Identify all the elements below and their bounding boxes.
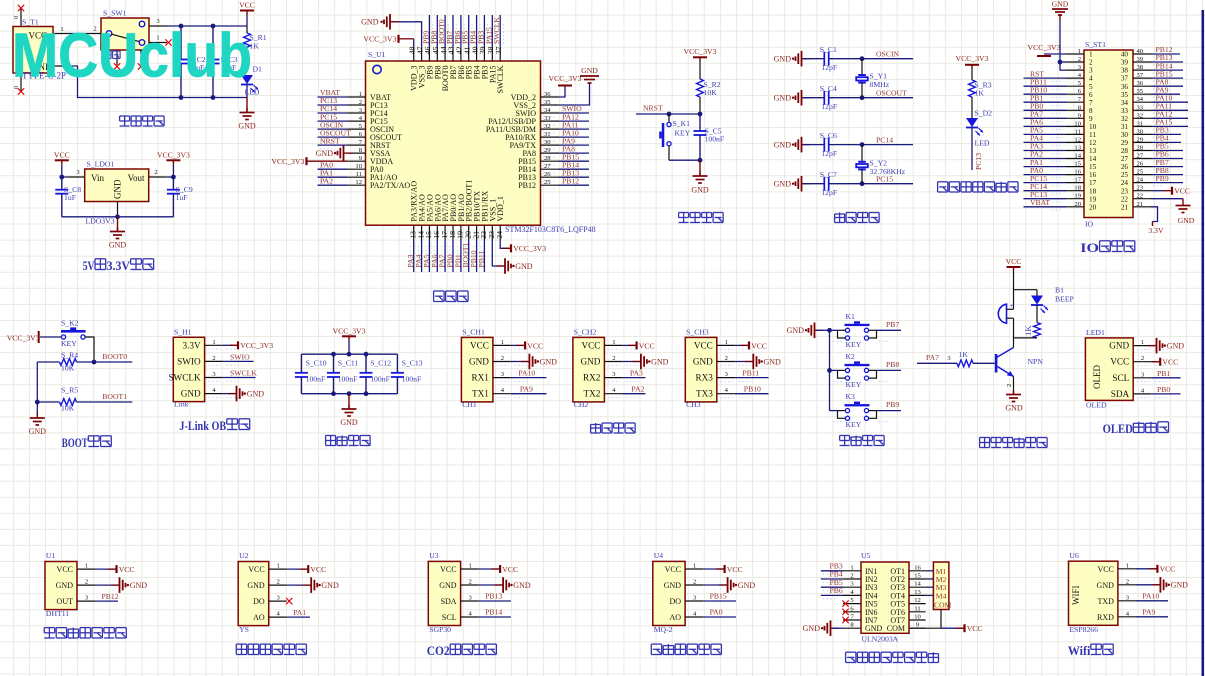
svg-text:VCC_3V3: VCC_3V3: [7, 334, 40, 343]
svg-text:1K: 1K: [1023, 325, 1033, 336]
svg-text:PB7: PB7: [886, 320, 899, 329]
svg-text:TX2: TX2: [584, 389, 601, 399]
svg-text:NPN: NPN: [1028, 357, 1044, 366]
svg-text:PB1: PB1: [1157, 369, 1170, 378]
svg-text:VCC_3V3: VCC_3V3: [240, 341, 273, 350]
svg-text:32.768KHz: 32.768KHz: [870, 167, 906, 176]
svg-text:SDA: SDA: [1111, 389, 1130, 399]
svg-text:SWCLK: SWCLK: [492, 17, 501, 44]
svg-text:3.3V: 3.3V: [1148, 226, 1164, 235]
svg-text:8MHz: 8MHz: [870, 80, 890, 89]
svg-text:U6: U6: [1069, 551, 1079, 560]
svg-text:KEY: KEY: [846, 340, 862, 349]
svg-text:GND: GND: [321, 581, 339, 590]
svg-text:27: 27: [1121, 155, 1129, 163]
svg-text:37: 37: [494, 46, 503, 54]
svg-text:40: 40: [1121, 51, 1129, 59]
svg-text:GND: GND: [1097, 581, 1115, 590]
svg-text:PB10: PB10: [744, 385, 761, 394]
svg-text:GND: GND: [1167, 342, 1185, 351]
svg-text:2: 2: [359, 99, 362, 106]
svg-text:12pF: 12pF: [821, 102, 837, 111]
svg-text:32: 32: [1121, 115, 1129, 123]
svg-text:13: 13: [1089, 147, 1097, 155]
svg-text:GND: GND: [439, 581, 457, 590]
svg-text:PB12: PB12: [518, 181, 536, 190]
svg-text:SCL: SCL: [1112, 373, 1129, 383]
svg-text:MCUclub: MCUclub: [12, 22, 252, 91]
svg-text:38: 38: [1121, 67, 1129, 75]
svg-text:33: 33: [1137, 104, 1144, 111]
svg-text:S_D2: S_D2: [975, 109, 993, 118]
svg-text:VCC: VCC: [639, 341, 655, 350]
svg-text:8: 8: [1089, 107, 1093, 115]
svg-text:VBAT: VBAT: [1030, 198, 1050, 207]
svg-text:11: 11: [914, 605, 920, 612]
svg-text:12pF: 12pF: [821, 149, 837, 158]
svg-text:PB13: PB13: [485, 592, 502, 601]
svg-text:35: 35: [544, 99, 551, 106]
svg-text:VCC_3V3: VCC_3V3: [1028, 43, 1061, 52]
svg-text:30: 30: [1137, 128, 1144, 135]
svg-text:SGP30: SGP30: [429, 625, 451, 634]
svg-text:3.3V: 3.3V: [107, 258, 131, 273]
svg-text:PA7: PA7: [926, 353, 939, 362]
svg-text:LED1: LED1: [1086, 328, 1105, 337]
svg-text:RXD: RXD: [1097, 613, 1114, 622]
svg-text:VCC: VCC: [310, 565, 326, 574]
svg-text:31: 31: [1137, 120, 1144, 127]
svg-text:26: 26: [1137, 161, 1144, 168]
svg-text:PB12: PB12: [562, 176, 579, 185]
svg-text:S_R5: S_R5: [61, 386, 78, 395]
svg-text:10: 10: [914, 614, 921, 621]
svg-text:U5: U5: [861, 551, 871, 560]
svg-text:S_CH1: S_CH1: [462, 328, 485, 337]
svg-text:12: 12: [355, 179, 362, 186]
svg-text:GND: GND: [56, 581, 74, 590]
svg-text:VCC_3V3: VCC_3V3: [333, 327, 366, 336]
svg-text:100nF: 100nF: [370, 375, 390, 384]
svg-text:S_C7: S_C7: [820, 170, 837, 179]
svg-text:AO: AO: [670, 613, 682, 622]
svg-text:GND: GND: [109, 241, 127, 250]
svg-text:PB9: PB9: [886, 400, 899, 409]
svg-text:34: 34: [544, 107, 551, 114]
svg-text:Wifi: Wifi: [1068, 644, 1091, 658]
svg-text:100nF: 100nF: [402, 375, 422, 384]
svg-text:KEY: KEY: [846, 420, 862, 429]
svg-text:U4: U4: [654, 551, 664, 560]
svg-text:NRST: NRST: [643, 104, 663, 113]
svg-text:16: 16: [914, 564, 921, 571]
svg-text:2: 2: [693, 579, 696, 586]
svg-text:3.3V: 3.3V: [182, 340, 200, 350]
svg-text:28: 28: [1121, 147, 1129, 155]
svg-text:VCC: VCC: [751, 341, 767, 350]
svg-text:VCC: VCC: [54, 150, 70, 159]
svg-text:PB9: PB9: [1156, 174, 1169, 183]
svg-text:35: 35: [1121, 91, 1129, 99]
svg-text:Vin: Vin: [91, 173, 104, 183]
svg-text:30: 30: [1121, 131, 1129, 139]
svg-text:PB15: PB15: [710, 592, 727, 601]
svg-text:4: 4: [1089, 75, 1093, 83]
svg-text:PA2: PA2: [320, 176, 333, 185]
svg-text:GND: GND: [1171, 581, 1189, 590]
svg-text:14: 14: [914, 581, 921, 588]
svg-text:PA0: PA0: [710, 608, 723, 617]
svg-text:GND: GND: [865, 624, 883, 633]
svg-text:SCL: SCL: [442, 613, 457, 622]
svg-text:2: 2: [725, 355, 728, 362]
svg-text:SWCLK: SWCLK: [168, 373, 201, 383]
svg-text:GND: GND: [238, 122, 256, 131]
svg-text:SWCLK: SWCLK: [496, 65, 505, 93]
svg-text:GND: GND: [774, 94, 792, 103]
svg-text:VCC: VCC: [57, 565, 73, 574]
svg-text:TX1: TX1: [472, 389, 489, 399]
svg-text:S_CH3: S_CH3: [686, 328, 709, 337]
svg-text:CO2: CO2: [427, 644, 450, 658]
svg-text:AO: AO: [253, 613, 265, 622]
svg-text:1: 1: [212, 339, 215, 346]
svg-text:1: 1: [1078, 48, 1081, 55]
svg-text:24: 24: [1121, 179, 1129, 187]
svg-text:CH3: CH3: [686, 400, 701, 409]
svg-text:GND: GND: [738, 581, 756, 590]
svg-text:VDD_1: VDD_1: [496, 196, 505, 221]
svg-text:K3: K3: [846, 392, 856, 401]
svg-text:100nF: 100nF: [705, 135, 725, 144]
svg-text:DO: DO: [253, 597, 265, 606]
svg-text:23: 23: [1121, 187, 1129, 195]
svg-text:CH2: CH2: [574, 400, 589, 409]
svg-text:S_K2: S_K2: [61, 319, 79, 328]
svg-text:VCC: VCC: [1006, 257, 1022, 266]
svg-text:25: 25: [1121, 171, 1129, 179]
svg-text:GND: GND: [181, 389, 201, 399]
svg-text:12pF: 12pF: [821, 188, 837, 197]
svg-text:29: 29: [1137, 136, 1144, 143]
svg-text:VCC: VCC: [119, 565, 135, 574]
svg-text:1: 1: [693, 563, 696, 570]
svg-text:VCC: VCC: [1110, 357, 1129, 367]
svg-text:KEY: KEY: [61, 339, 77, 348]
svg-text:S_C11: S_C11: [338, 359, 359, 368]
svg-text:S_C12: S_C12: [370, 359, 391, 368]
svg-text:VCC_3V3: VCC_3V3: [157, 150, 190, 159]
svg-text:Link: Link: [174, 400, 189, 409]
svg-text:SWIO: SWIO: [230, 353, 250, 362]
svg-text:PB12: PB12: [102, 592, 119, 601]
svg-text:2: 2: [1126, 578, 1129, 585]
svg-text:GND: GND: [361, 18, 379, 27]
svg-text:D1: D1: [253, 65, 263, 74]
svg-text:GND: GND: [130, 581, 148, 590]
svg-text:M4: M4: [936, 591, 947, 600]
svg-text:U1: U1: [46, 551, 56, 560]
svg-text:2: 2: [1078, 56, 1081, 63]
svg-text:19: 19: [1074, 193, 1081, 200]
svg-text:GND: GND: [340, 418, 358, 427]
svg-text:34: 34: [1137, 96, 1144, 103]
svg-text:29: 29: [1121, 139, 1129, 147]
svg-text:WIFI: WIFI: [1071, 586, 1081, 606]
svg-text:STM32F103C8T6_LQFP48: STM32F103C8T6_LQFP48: [505, 225, 596, 234]
svg-text:36: 36: [1121, 83, 1129, 91]
svg-text:GND: GND: [787, 326, 805, 335]
svg-text:S_C4: S_C4: [820, 84, 837, 93]
svg-text:SWCLK: SWCLK: [230, 369, 257, 378]
svg-text:PC13: PC13: [974, 153, 983, 170]
svg-text:2: 2: [154, 169, 157, 176]
svg-text:12: 12: [1089, 139, 1097, 147]
svg-text:VCC: VCC: [727, 565, 743, 574]
svg-text:PA10: PA10: [1142, 592, 1159, 601]
svg-text:23: 23: [1137, 185, 1144, 192]
svg-text:10K: 10K: [704, 88, 718, 97]
svg-text:27: 27: [544, 163, 551, 170]
svg-text:S_H1: S_H1: [174, 328, 192, 337]
svg-text:100nF: 100nF: [338, 375, 358, 384]
svg-text:1: 1: [725, 339, 728, 346]
svg-text:VCC: VCC: [470, 340, 489, 350]
svg-text:2: 2: [1089, 59, 1093, 67]
svg-text:24: 24: [1137, 177, 1144, 184]
svg-text:13: 13: [914, 589, 921, 596]
svg-text:BEEP: BEEP: [1055, 295, 1074, 304]
svg-text:PC15: PC15: [876, 175, 893, 184]
svg-text:12: 12: [914, 597, 921, 604]
svg-text:7: 7: [1089, 99, 1093, 107]
svg-text:DHT11: DHT11: [46, 609, 69, 618]
svg-text:LED: LED: [975, 139, 990, 148]
svg-text:VCC_3V3: VCC_3V3: [684, 47, 717, 56]
svg-text:31: 31: [544, 131, 551, 138]
svg-text:PA1: PA1: [293, 608, 306, 617]
svg-text:GND: GND: [513, 581, 531, 590]
svg-text:1uF: 1uF: [176, 193, 188, 202]
svg-text:2: 2: [501, 355, 504, 362]
svg-text:1K: 1K: [959, 350, 969, 359]
svg-text:COM: COM: [887, 624, 905, 633]
svg-text:+: +: [1010, 302, 1014, 310]
svg-text:PB8: PB8: [886, 360, 899, 369]
svg-text:26: 26: [1121, 163, 1129, 171]
svg-text:KEY: KEY: [846, 380, 862, 389]
svg-text:GND: GND: [774, 180, 792, 189]
svg-text:KEY: KEY: [675, 129, 691, 138]
svg-text:IO: IO: [1080, 240, 1099, 255]
svg-text:2: 2: [612, 355, 615, 362]
svg-text:VCC_3V3: VCC_3V3: [549, 74, 582, 83]
svg-text:BOOT: BOOT: [62, 435, 88, 450]
svg-text:15: 15: [914, 573, 921, 580]
svg-text:32: 32: [1137, 112, 1144, 119]
svg-text:OUT: OUT: [57, 597, 74, 606]
svg-text:2: 2: [468, 579, 471, 586]
svg-text:VCC_3V3: VCC_3V3: [271, 157, 304, 166]
svg-text:12: 12: [1074, 136, 1081, 143]
svg-text:10: 10: [355, 163, 362, 170]
svg-text:U2: U2: [239, 551, 249, 560]
svg-text:25: 25: [1137, 169, 1144, 176]
svg-text:PA3: PA3: [630, 369, 643, 378]
svg-text:OLED: OLED: [1092, 365, 1102, 389]
svg-text:GND: GND: [29, 427, 47, 436]
svg-text:1: 1: [1141, 339, 1144, 346]
svg-text:36: 36: [544, 91, 551, 98]
svg-text:14: 14: [1089, 155, 1097, 163]
svg-text:Vout: Vout: [128, 173, 145, 183]
svg-text:IO: IO: [1085, 220, 1094, 229]
svg-text:1: 1: [85, 563, 88, 570]
svg-text:19: 19: [1089, 195, 1097, 203]
svg-text:14: 14: [1074, 153, 1081, 160]
svg-text:VCC: VCC: [694, 340, 713, 350]
svg-text:VCC: VCC: [967, 624, 983, 633]
svg-text:9: 9: [1089, 115, 1093, 123]
svg-text:K2: K2: [846, 352, 856, 361]
svg-text:40: 40: [1137, 48, 1144, 55]
svg-text:S_C10: S_C10: [306, 359, 327, 368]
svg-text:PB0: PB0: [1157, 385, 1170, 394]
svg-text:2: 2: [1006, 384, 1013, 387]
svg-text:GND: GND: [693, 357, 713, 367]
svg-text:VCC: VCC: [1160, 565, 1176, 574]
svg-text:OLED: OLED: [1086, 401, 1107, 410]
svg-text:S_LDO1: S_LDO1: [87, 160, 115, 169]
svg-text:2: 2: [1141, 355, 1144, 362]
svg-text:MQ-2: MQ-2: [654, 625, 673, 634]
svg-text:PC14: PC14: [876, 136, 893, 145]
svg-text:13: 13: [1074, 145, 1081, 152]
svg-text:VCC: VCC: [527, 341, 543, 350]
svg-text:15: 15: [1074, 161, 1081, 168]
svg-text:VCC: VCC: [440, 565, 456, 574]
svg-text:S_C1: S_C1: [820, 45, 837, 54]
svg-text:GND: GND: [691, 186, 709, 195]
svg-text:SWIO: SWIO: [177, 356, 201, 366]
svg-text:24: 24: [495, 231, 504, 239]
svg-text:18: 18: [1089, 187, 1097, 195]
svg-text:32: 32: [544, 123, 551, 130]
svg-text:26: 26: [544, 171, 551, 178]
svg-text:10: 10: [1089, 123, 1097, 131]
svg-text:S_ST1: S_ST1: [1085, 40, 1106, 49]
svg-text:COM: COM: [934, 601, 952, 610]
svg-text:PA2: PA2: [631, 385, 644, 394]
svg-text:S_U1: S_U1: [368, 50, 386, 59]
svg-text:28: 28: [1137, 145, 1144, 152]
svg-text:16: 16: [1074, 169, 1081, 176]
svg-text:12pF: 12pF: [821, 63, 837, 72]
svg-text:S_K1: S_K1: [673, 119, 691, 128]
svg-text:36: 36: [1137, 80, 1144, 87]
svg-text:DO: DO: [670, 597, 682, 606]
svg-text:1: 1: [850, 564, 853, 571]
svg-text:1K: 1K: [975, 89, 985, 98]
svg-text:GND: GND: [247, 581, 265, 590]
svg-text:B1: B1: [1055, 286, 1064, 295]
svg-text:GND: GND: [580, 357, 600, 367]
svg-text:S_C13: S_C13: [402, 359, 423, 368]
svg-text:S_SW1: S_SW1: [103, 9, 127, 18]
svg-text:GND: GND: [469, 357, 489, 367]
svg-text:ULN2003A: ULN2003A: [862, 635, 899, 644]
svg-text:GND: GND: [113, 179, 123, 199]
svg-text:GND: GND: [651, 357, 669, 366]
svg-text:31: 31: [1121, 123, 1129, 131]
svg-text:J-Link OB: J-Link OB: [179, 418, 226, 433]
svg-text:RX2: RX2: [583, 373, 601, 383]
svg-text:1uF: 1uF: [64, 193, 76, 202]
svg-text:VCC: VCC: [1174, 187, 1190, 196]
svg-text:VCC_3V3: VCC_3V3: [363, 35, 396, 44]
svg-text:18: 18: [1074, 185, 1081, 192]
svg-text:U3: U3: [429, 551, 439, 560]
svg-text:21: 21: [1121, 203, 1129, 211]
svg-text:30: 30: [544, 139, 551, 146]
svg-text:GND: GND: [774, 141, 792, 150]
svg-text:39: 39: [1121, 59, 1129, 67]
svg-text:22: 22: [1121, 195, 1129, 203]
svg-text:PA9: PA9: [520, 385, 533, 394]
svg-text:RX3: RX3: [695, 373, 713, 383]
svg-text:28: 28: [544, 155, 551, 162]
svg-text:22: 22: [1137, 193, 1144, 200]
svg-text:11: 11: [1075, 128, 1081, 135]
svg-text:27: 27: [1137, 153, 1144, 160]
svg-text:VCC: VCC: [581, 340, 600, 350]
svg-text:1: 1: [612, 339, 615, 346]
svg-text:11: 11: [1089, 131, 1096, 139]
svg-text:17: 17: [1089, 179, 1097, 187]
svg-text:10K: 10K: [61, 364, 75, 373]
svg-text:5: 5: [1089, 83, 1093, 91]
svg-text:GND: GND: [803, 624, 821, 633]
svg-text:TXD: TXD: [1097, 597, 1114, 606]
svg-text:GND: GND: [1109, 341, 1129, 351]
svg-text:10K: 10K: [61, 404, 75, 413]
svg-text:33: 33: [544, 115, 551, 122]
svg-text:GND: GND: [764, 357, 782, 366]
svg-text:2: 2: [212, 355, 215, 362]
svg-text:PA10: PA10: [518, 369, 535, 378]
svg-text:LDO3V3: LDO3V3: [86, 217, 115, 226]
svg-text:GND: GND: [1005, 404, 1023, 413]
svg-text:YS: YS: [239, 625, 249, 634]
svg-text:GND: GND: [316, 149, 334, 158]
svg-text:GND: GND: [247, 390, 265, 399]
svg-text:2: 2: [850, 573, 853, 580]
svg-text:17: 17: [1074, 177, 1081, 184]
svg-text:PB6: PB6: [830, 586, 843, 595]
svg-text:TX3: TX3: [696, 389, 713, 399]
svg-text:33: 33: [1121, 107, 1129, 115]
svg-text:K1: K1: [846, 312, 856, 321]
svg-text:3: 3: [1089, 67, 1093, 75]
svg-text:SDA: SDA: [441, 597, 457, 606]
svg-text:ESP8266: ESP8266: [1069, 625, 1098, 634]
svg-text:1: 1: [1126, 562, 1129, 569]
svg-text:PA2/TX/AO: PA2/TX/AO: [370, 181, 410, 190]
svg-text:1: 1: [501, 339, 504, 346]
svg-text:GND: GND: [540, 357, 558, 366]
svg-text:OLED: OLED: [1103, 421, 1133, 436]
svg-text:20: 20: [1074, 201, 1081, 208]
